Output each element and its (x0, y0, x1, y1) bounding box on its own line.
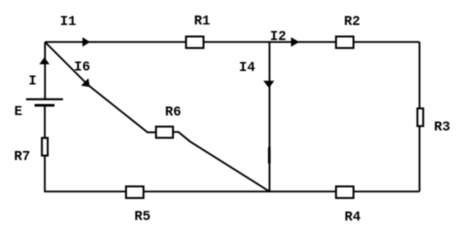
svg-text:R6: R6 (165, 105, 181, 120)
resistor R6 (156, 105, 181, 138)
wire bottom horizontal (44, 191, 420, 193)
node junction top middle (269, 41, 271, 43)
wire diagonal upper segment (46, 43, 156, 133)
svg-text:I: I (29, 75, 37, 90)
svg-text:E: E (14, 105, 22, 120)
wire right vertical (419, 42, 421, 192)
current arrow I2 (270, 30, 299, 47)
svg-text:R4: R4 (345, 211, 361, 226)
wire left vertical lower (44, 106, 46, 192)
svg-text:R7: R7 (14, 150, 30, 165)
svg-text:R5: R5 (134, 210, 150, 225)
svg-text:I2: I2 (270, 30, 286, 45)
wire diagonal lower segment (174, 132, 270, 191)
current arrow I (battery branch) (29, 57, 50, 89)
resistor R2 (336, 15, 360, 48)
svg-text:I1: I1 (60, 15, 76, 30)
resistor R1 (186, 15, 210, 48)
svg-text:R1: R1 (194, 15, 210, 30)
resistor R4 (336, 186, 361, 225)
svg-text:R3: R3 (434, 120, 450, 135)
wire middle vertical (269, 42, 271, 192)
svg-text:I6: I6 (74, 61, 90, 76)
current arrow I6 (74, 61, 90, 88)
wire left vertical upper (44, 42, 46, 99)
node junction bottom middle (269, 191, 271, 193)
svg-text:I4: I4 (239, 61, 255, 76)
resistor R7 (14, 138, 48, 165)
current arrow I4 (239, 61, 274, 88)
wire top horizontal (45, 41, 420, 43)
current arrow I1 (60, 15, 90, 47)
battery E (14, 99, 63, 120)
resistor R5 (126, 186, 151, 225)
svg-text:R2: R2 (344, 15, 360, 30)
resistor R3 (417, 108, 450, 135)
wire middle vertical thick overlap segment (268, 147, 271, 164)
